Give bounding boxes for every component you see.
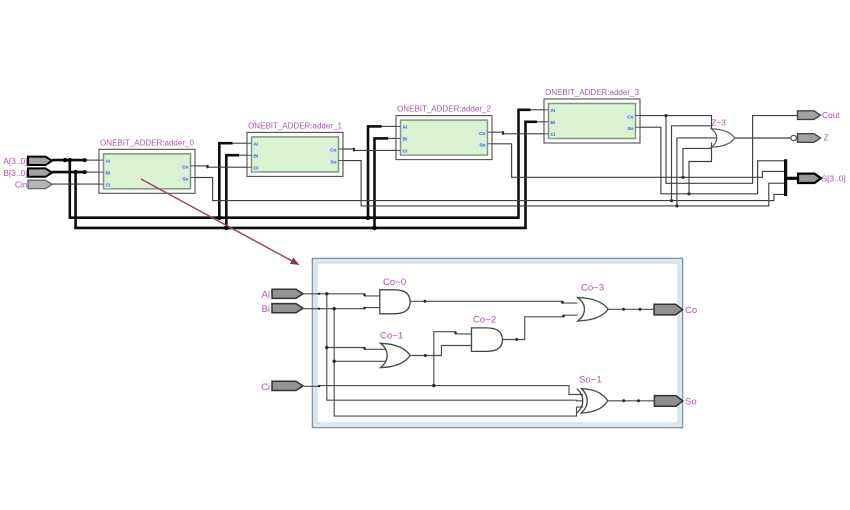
svg-text:Ci: Ci [403,149,408,155]
svg-text:Co~1: Co~1 [380,331,403,342]
wire Co~3 output to Co pin [608,308,654,311]
detail view box of ONEBIT_ADDER [313,259,683,428]
svg-text:Co: Co [627,114,633,120]
wire S[3..0] bus collector [786,159,798,196]
wire Ci net (detail) [304,332,583,395]
svg-text:Co~3: Co~3 [581,283,604,294]
output pin Co (detail) [654,304,697,316]
input pin Ai (detail) [261,289,303,300]
inverter bubble on Z [791,135,796,140]
svg-text:Bi: Bi [254,153,259,159]
and-gate Co~2 [472,315,503,352]
svg-text:ONEBIT_ADDER:adder_3: ONEBIT_ADDER:adder_3 [545,88,639,97]
output pin S[3..0] [798,173,846,183]
svg-text:So: So [627,126,633,132]
wire So~1 output to So pin [608,399,655,402]
wire Co adder_0 to Ci adder_1 [195,166,247,167]
input pin Bi (detail) [261,304,303,315]
wire Z gate input from S0 [672,126,712,201]
svg-text:So~1: So~1 [579,375,602,386]
svg-text:Bi: Bi [261,304,270,315]
wire Co~0 output to Co~3 [410,300,577,304]
wire Cout net from adder_3 Co [640,116,712,130]
wire S3 from adder_3 So [640,127,785,194]
svg-text:Z: Z [824,133,829,143]
svg-text:Ci: Ci [254,165,259,171]
svg-text:Ai: Ai [106,158,111,164]
svg-text:Ci: Ci [551,132,556,138]
svg-text:Co: Co [330,148,336,154]
module ONEBIT_ADDER:adder_1 [247,121,343,176]
red callout arrow from adder_0 to detail view [141,179,300,265]
wire Co~2 output to Co~3 [503,315,578,341]
svg-text:Cin: Cin [15,180,28,190]
svg-text:Ci: Ci [261,382,270,393]
svg-text:Co: Co [685,305,697,316]
wire A[3..0] bus [52,110,544,220]
wire Co adder_1 to Ci adder_2 [343,149,396,150]
svg-text:Ci: Ci [106,182,111,188]
output pin Z [798,133,829,143]
wire Z gate input from S1 [677,138,716,206]
svg-text:A[3..0]: A[3..0] [3,156,27,166]
and-gate Co~0 [380,277,410,314]
svg-text:B[3..0]: B[3..0] [3,168,27,178]
wire Ai net (detail) [303,292,583,401]
input pin A[3..0] [3,156,52,166]
svg-text:S[3..0]: S[3..0] [822,173,846,183]
output pin So (detail) [654,396,696,408]
wire Bi net (detail) [303,307,583,416]
svg-text:Co: Co [182,165,188,171]
svg-text:Ai: Ai [403,125,408,131]
wire B[3..0] bus [52,122,544,230]
svg-text:Co~0: Co~0 [383,277,406,288]
output pin Cout [798,110,841,120]
wire S2 from adder_2 So [492,144,785,178]
svg-text:ONEBIT_ADDER:adder_1: ONEBIT_ADDER:adder_1 [248,121,342,130]
input pin B[3..0] [3,168,52,178]
svg-text:Co: Co [479,131,485,137]
input pin Ci (detail) [261,381,303,393]
svg-text:Ai: Ai [551,108,556,114]
svg-text:Co~2: Co~2 [473,315,496,326]
svg-text:So: So [479,143,485,149]
svg-text:Bi: Bi [551,120,556,126]
or-gate Z~3 [712,119,735,148]
svg-text:Z~3: Z~3 [712,119,727,128]
wire Cin [52,183,99,185]
svg-text:Bi: Bi [403,137,408,143]
svg-text:So: So [182,176,188,182]
wire Z gate input from S2 [683,148,712,177]
svg-text:Cout: Cout [822,110,840,120]
svg-text:So: So [330,159,336,165]
wire S0 from adder_0 So [195,178,785,201]
module ONEBIT_ADDER:adder_2 [396,105,492,160]
svg-text:Ai: Ai [261,290,270,301]
or-gate Co~3 [578,283,609,322]
svg-text:So: So [685,396,697,407]
svg-text:Ai: Ai [254,141,259,147]
wire Co~1 output to Co~2 [410,346,471,358]
xor-gate So~1 [577,375,608,414]
wire Co adder_2 to Ci adder_3 [492,132,544,134]
wire Z gate input from S3 [689,143,712,194]
wire S1 from adder_1 So [343,161,785,206]
svg-text:ONEBIT_ADDER:adder_2: ONEBIT_ADDER:adder_2 [397,105,491,114]
or-gate Co~1 [380,331,410,368]
svg-text:Bi: Bi [106,170,111,176]
svg-text:ONEBIT_ADDER:adder_0: ONEBIT_ADDER:adder_0 [100,138,194,147]
wire Z output [735,137,791,139]
module ONEBIT_ADDER:adder_3 [544,88,640,143]
input pin Cin [15,180,52,190]
module ONEBIT_ADDER:adder_0 [99,138,195,193]
